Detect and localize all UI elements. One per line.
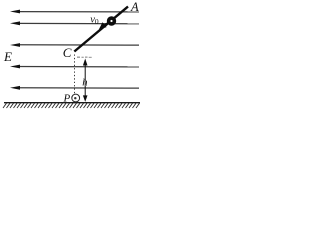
point P circle [72,94,80,102]
dotted drop line from C to P [74,55,76,95]
field line 3 [10,43,139,47]
ground hatching [3,103,140,108]
field line 2 [10,21,139,25]
svg-text:C: C [63,45,72,60]
field line 1 [10,10,139,14]
dot inside P circle [74,97,76,99]
svg-text:A: A [130,0,139,14]
svg-text:v0: v0 [90,14,99,26]
height dimension arrow h [83,59,88,102]
background [0,0,144,114]
svg-text:E: E [3,49,12,64]
field line 5 [10,86,139,90]
svg-text:h: h [82,77,87,88]
rod AC [74,7,128,52]
faint annotation smudge [77,57,92,58]
velocity arrow v0 [99,22,110,30]
ground line [4,102,140,104]
bead on rod [109,18,115,24]
field line 4 [10,65,139,69]
